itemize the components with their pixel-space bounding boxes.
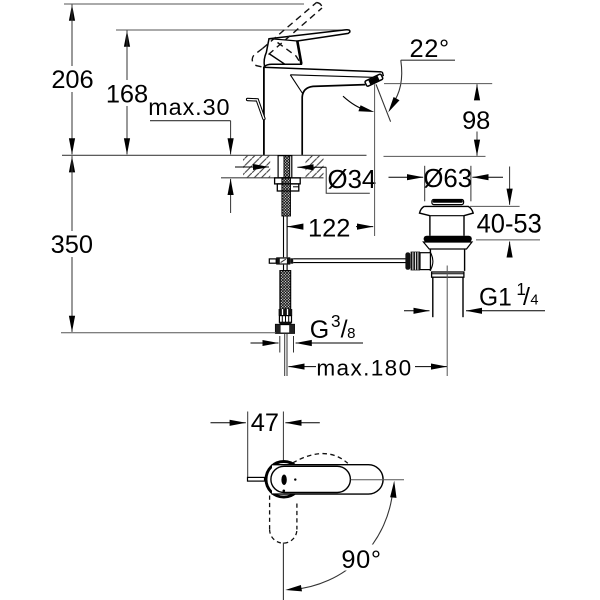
svg-text:47: 47 — [251, 409, 279, 437]
waste centerline — [446, 266, 448, 377]
svg-text:G1: G1 — [479, 284, 512, 311]
threaded rod below deck — [282, 178, 291, 216]
top view: spout centerline — [351, 479, 404, 481]
threaded rod crosshatch (in deck) — [284, 156, 290, 178]
dim Ø34 arrows — [235, 166, 269, 168]
top view: bottom centerline — [282, 543, 284, 600]
top view: handle stadium — [271, 466, 351, 492]
svg-text:Ø34: Ø34 — [328, 166, 377, 194]
aerator — [365, 74, 384, 87]
solid lever handle — [264, 30, 350, 67]
spout right corner edge — [382, 72, 383, 76]
waste collar — [432, 272, 464, 277]
svg-text:3: 3 — [331, 311, 341, 331]
spout top inner line — [290, 75, 380, 78]
svg-text:4: 4 — [530, 293, 538, 309]
reference line top of lowered lever (168 top) — [116, 29, 350, 31]
dim G1 1/4 — [404, 310, 430, 312]
svg-text:90°: 90° — [341, 546, 381, 574]
deck hatch left — [243, 156, 270, 178]
top view: dashed handle pointing down — [270, 496, 297, 544]
dim 350 — [71, 156, 73, 172]
hose ferrule — [279, 309, 293, 316]
pop-up rod (vertical) — [283, 216, 285, 257]
linkage block — [276, 257, 290, 264]
svg-text:22°: 22° — [410, 35, 450, 63]
svg-text:122: 122 — [308, 214, 350, 242]
flex hose braid — [280, 271, 291, 309]
top view: body circle — [266, 462, 302, 498]
hose hex nut — [276, 325, 295, 334]
Ø34 leader box — [326, 167, 370, 193]
deck bottom line — [221, 177, 324, 179]
hose tails — [284, 333, 286, 376]
svg-text:8: 8 — [347, 325, 355, 342]
flow direction arc — [343, 96, 367, 110]
dim 47 — [211, 422, 246, 424]
dim max.180 — [288, 366, 316, 368]
deck hatch right — [306, 156, 324, 178]
deck top line — [62, 154, 367, 156]
waste knob stem — [420, 253, 430, 270]
shank tube in deck — [278, 156, 292, 178]
svg-text:max.30: max.30 — [148, 94, 230, 120]
water stream 22 deg slant — [376, 84, 391, 121]
hose nut ribbed section — [279, 316, 291, 323]
90 deg arc — [293, 489, 393, 590]
waste body walls — [429, 249, 431, 271]
svg-text:40-53: 40-53 — [477, 207, 542, 238]
washer below deck — [275, 178, 301, 184]
dim 40-53 — [470, 205, 520, 207]
top view: pop-up rod tab — [248, 477, 265, 481]
svg-text:Ø63: Ø63 — [423, 165, 472, 193]
dim 206 — [71, 5, 73, 20]
pop-up hook lever behind body — [248, 100, 264, 119]
locking nut — [277, 184, 299, 191]
waste knurled knob — [405, 252, 410, 269]
reference line top of raised lever (206 top) — [64, 3, 304, 5]
spout/body inner diagonal — [290, 75, 302, 94]
350 bottom reference line — [61, 332, 276, 334]
pop-up waste: plug — [432, 200, 464, 205]
waste neck — [429, 216, 431, 236]
waste washer — [423, 242, 472, 249]
svg-text:206: 206 — [51, 66, 93, 94]
top view: handle dot marks — [281, 475, 286, 486]
lever blade underside line — [269, 39, 297, 41]
22 deg leader arc — [392, 60, 402, 105]
linkage left tab — [269, 259, 276, 263]
dashed raised lever — [252, 3, 322, 68]
water stream vertical line — [374, 84, 376, 236]
rod stub below block — [283, 265, 285, 271]
svg-text:98: 98 — [462, 107, 490, 135]
svg-text:/: / — [523, 283, 530, 311]
dim 122 — [287, 226, 301, 228]
lever neck inner edge — [269, 54, 285, 65]
waste tailpipe — [432, 277, 434, 317]
faucet body top edge — [263, 67, 382, 72]
svg-text:168: 168 — [106, 81, 148, 109]
waste O-ring — [424, 236, 472, 242]
dim 168 — [126, 31, 128, 46]
top view: dashed handle rotated up — [293, 454, 348, 464]
waste inner arc — [430, 252, 433, 270]
label 90 deg — [337, 545, 385, 571]
dim Ø63 — [424, 166, 426, 202]
dim G3/8 — [251, 342, 279, 344]
lever right edge (thick) — [297, 41, 301, 64]
faucet body left edge — [263, 67, 265, 155]
dim 98 — [384, 83, 492, 85]
top view: spout stadium — [272, 465, 383, 494]
svg-text:350: 350 — [51, 231, 93, 259]
waste flange — [420, 206, 474, 215]
svg-text:G: G — [310, 316, 329, 344]
svg-text:max.180: max.180 — [316, 355, 412, 380]
horizontal pop-up rod to waste — [293, 258, 406, 260]
body right edge and spout underside — [302, 85, 365, 155]
